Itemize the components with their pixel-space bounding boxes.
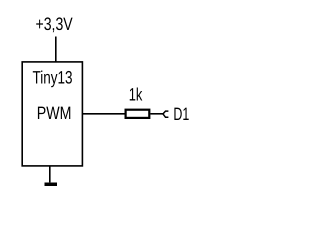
wire +3,3V to U1 VCC: [55, 37, 57, 62]
wire U1 GND to ground: [49, 166, 51, 183]
svg-text:D1: D1: [173, 104, 189, 124]
svg-text:1k: 1k: [129, 85, 143, 105]
IC U1 Tiny13 outline: [22, 62, 82, 166]
svg-text:PWM: PWM: [37, 103, 72, 123]
resistor R1 body: [126, 110, 150, 118]
svg-text:+3,3V: +3,3V: [36, 14, 73, 34]
ground symbol: [44, 182, 57, 186]
wire PWM pin to R1: [82, 113, 125, 115]
wire R1 to terminal D1: [150, 113, 163, 115]
svg-text:Tiny13: Tiny13: [33, 68, 73, 88]
terminal connector to D1: [163, 111, 168, 117]
